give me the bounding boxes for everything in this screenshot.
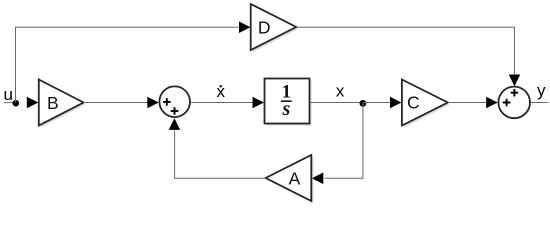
wire: right sum to output y bbox=[531, 102, 549, 104]
wire: B output to left sum bbox=[84, 102, 149, 104]
arrowhead into C bbox=[390, 97, 402, 109]
arrowhead into left sum (from B) bbox=[147, 97, 159, 109]
svg-text:A: A bbox=[289, 169, 301, 189]
arrowhead down into right sum bbox=[509, 75, 521, 87]
arrowhead into D bbox=[239, 21, 250, 33]
gain A (triangle, points left) bbox=[266, 155, 314, 203]
svg-text:s: s bbox=[282, 98, 291, 120]
arrowhead into A bbox=[312, 173, 324, 185]
svg-text:u: u bbox=[3, 85, 12, 104]
svg-text:B: B bbox=[47, 93, 59, 113]
svg-text:x: x bbox=[336, 81, 345, 100]
wire: node x to gain C bbox=[363, 102, 391, 104]
summing junction S2 (right) bbox=[498, 87, 530, 119]
wire: integrator to node x bbox=[310, 102, 363, 104]
arrowhead into B bbox=[27, 97, 39, 109]
gain B (triangle) bbox=[39, 80, 86, 128]
label y bbox=[537, 81, 546, 100]
svg-text:y: y bbox=[537, 81, 546, 100]
wire: node x down to feedback path bbox=[325, 103, 363, 179]
arrowhead up into left sum (from A) bbox=[169, 118, 181, 130]
summing junction S1 (left) bbox=[159, 86, 190, 117]
wire: left sum to integrator bbox=[191, 102, 253, 104]
svg-text:x: x bbox=[217, 82, 226, 101]
arrowhead into right sum (from C) bbox=[486, 97, 498, 109]
arrowhead into integrator bbox=[253, 97, 265, 109]
label u bbox=[3, 85, 12, 104]
svg-text:D: D bbox=[258, 17, 271, 37]
label x-dot bbox=[217, 82, 226, 101]
wire: A output back to left sum bbox=[175, 131, 266, 179]
wire: input stub from left edge to node u bbox=[4, 102, 16, 104]
node u (junction dot) bbox=[13, 100, 20, 107]
wire: C output to right sum bbox=[448, 102, 487, 104]
wire: D output to right sum (over the top) bbox=[296, 27, 514, 74]
wire: node u up to top feedforward path bbox=[15, 27, 17, 103]
label x bbox=[336, 81, 345, 100]
svg-text:C: C bbox=[407, 93, 420, 113]
node x (junction dot) bbox=[360, 100, 367, 107]
wire: top path to gain D bbox=[15, 26, 240, 28]
integrator block 1/s bbox=[265, 79, 312, 126]
gain D (triangle) bbox=[251, 4, 299, 52]
gain C (triangle) bbox=[402, 80, 450, 128]
